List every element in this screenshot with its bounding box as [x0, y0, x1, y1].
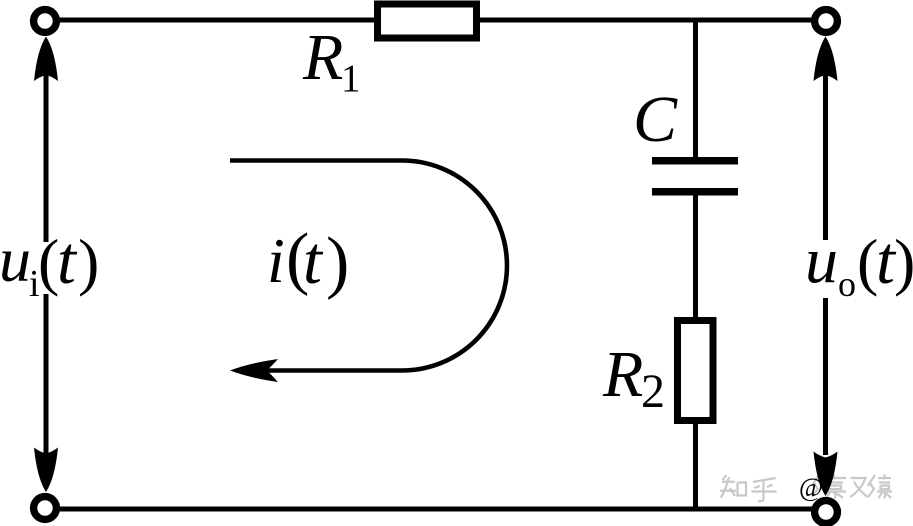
svg-text:): )	[894, 226, 913, 297]
svg-text:): )	[78, 226, 99, 297]
svg-text:t: t	[57, 222, 78, 298]
svg-text:i: i	[267, 225, 285, 296]
svg-text:u: u	[805, 224, 838, 297]
svg-text:R: R	[302, 21, 343, 94]
svg-text:t: t	[303, 222, 324, 298]
svg-text:o: o	[838, 264, 856, 304]
svg-text:u: u	[0, 224, 31, 295]
svg-text:C: C	[633, 83, 678, 156]
svg-text:): )	[326, 224, 349, 301]
svg-text:1: 1	[341, 57, 361, 100]
svg-text:2: 2	[641, 365, 665, 418]
svg-text:R: R	[602, 338, 643, 411]
